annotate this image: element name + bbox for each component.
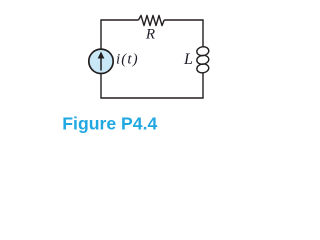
svg-text:R: R bbox=[145, 27, 155, 43]
svg-text:L: L bbox=[183, 51, 193, 68]
svg-text:Figure P4.4: Figure P4.4 bbox=[62, 113, 157, 133]
svg-text:i(t): i(t) bbox=[116, 52, 139, 68]
